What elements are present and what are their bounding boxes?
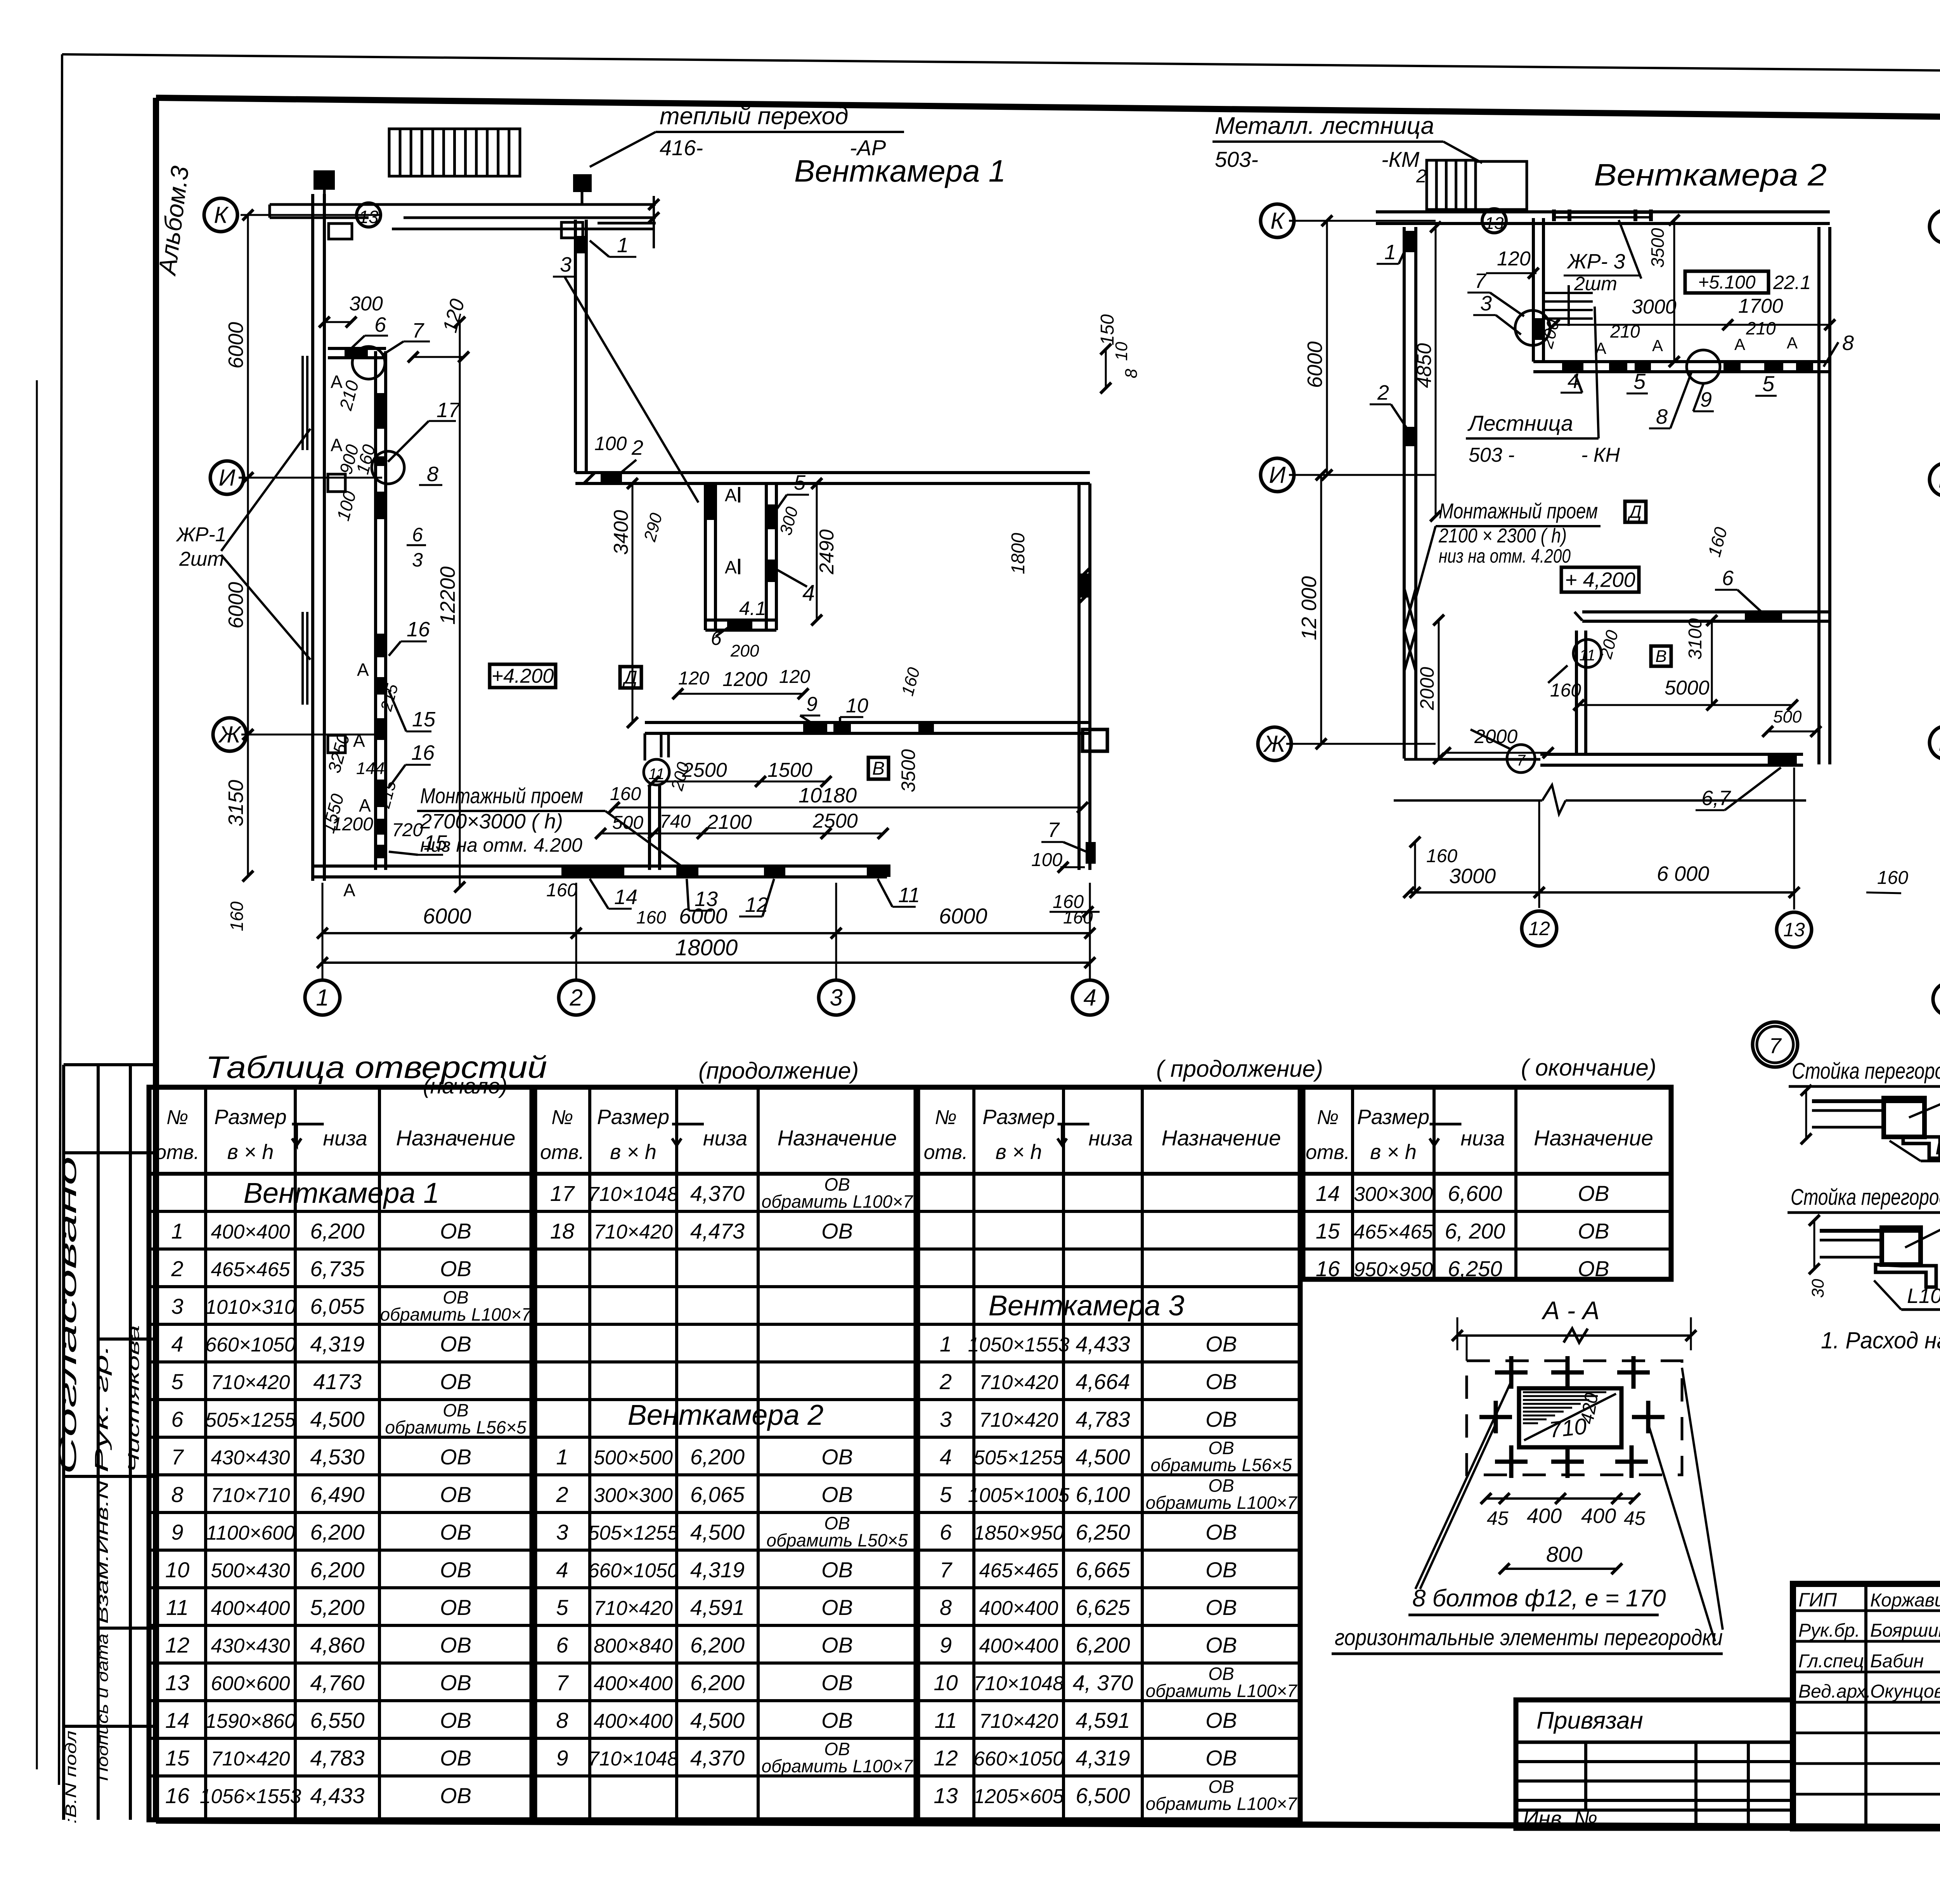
detail A-A dashed rect (1467, 1361, 1682, 1475)
svg-text:4,530: 4,530 (310, 1445, 364, 1469)
svg-text:Монтажный проем: Монтажный проем (1439, 499, 1598, 523)
svg-text:ОВ: ОВ (1206, 1595, 1237, 1620)
svg-text:ОВ: ОВ (440, 1558, 471, 1582)
svg-text:160: 160 (227, 901, 247, 931)
svg-text:4: 4 (940, 1445, 952, 1469)
svg-text:горизонтальные элементы пере: горизонтальные элементы перегородки (1335, 1625, 1723, 1650)
svg-text:ОВ: ОВ (1206, 1369, 1237, 1394)
svg-text:4,783: 4,783 (1076, 1407, 1130, 1431)
svg-text:12: 12 (934, 1746, 958, 1770)
svg-text:13: 13 (934, 1783, 958, 1808)
svg-text:-АР: -АР (850, 135, 886, 160)
plan 1 mid room right wall (765, 483, 768, 630)
svg-text:ОВ: ОВ (440, 1708, 471, 1732)
plan 1 mid room left wall (704, 483, 707, 630)
svg-text:5,200: 5,200 (310, 1595, 364, 1620)
svg-text:6: 6 (1722, 567, 1734, 590)
plan 1 vertical partition lower (648, 786, 651, 870)
svg-text:3150: 3150 (224, 780, 248, 826)
plan 2 axis Zh (1258, 727, 1291, 761)
svg-text:400×400: 400×400 (979, 1597, 1058, 1620)
plan 1 black seg 2 (601, 471, 622, 484)
svg-text:120: 120 (678, 668, 709, 689)
plan 1 room letter V (868, 757, 889, 779)
table 2 grid (535, 1087, 916, 1820)
svg-text:710×420: 710×420 (211, 1748, 290, 1770)
plan 2 circle sec 3 (1515, 310, 1550, 345)
plan 2 circle 11 (1573, 639, 1601, 667)
plan 3 axis A (1933, 982, 1940, 1016)
plan 2 upper room left wall (1532, 218, 1535, 362)
svg-text:2000: 2000 (1416, 667, 1438, 710)
svg-text:ОВ: ОВ (821, 1708, 853, 1732)
svg-text:Венткамера 2: Венткамера 2 (628, 1399, 824, 1431)
svg-text:400: 400 (1581, 1504, 1616, 1528)
svg-text:740: 740 (660, 811, 691, 832)
stamp column verticals (36, 380, 38, 1769)
plan 1 axis circle Zh (213, 718, 246, 751)
plan 2 bottom axis circles (1522, 911, 1557, 946)
svg-text:ОВ: ОВ (1578, 1181, 1609, 1206)
svg-text:6,200: 6,200 (690, 1670, 745, 1695)
svg-text:300×300: 300×300 (1354, 1183, 1433, 1206)
svg-text:6000: 6000 (224, 322, 248, 369)
svg-text:12200: 12200 (436, 567, 459, 625)
svg-text:15: 15 (1316, 1219, 1340, 1243)
svg-text:Венткамера 1: Венткамера 1 (244, 1177, 440, 1209)
svg-text:Назначение: Назначение (396, 1126, 516, 1150)
svg-text:4, 370: 4, 370 (1073, 1670, 1133, 1695)
svg-text:2000: 2000 (1474, 726, 1517, 747)
svg-text:430×430: 430×430 (211, 1635, 290, 1657)
svg-text:Привязан: Привязан (1536, 1707, 1643, 1734)
plan 1 column K2 (573, 174, 592, 192)
svg-text:4,500: 4,500 (310, 1407, 364, 1431)
plan 2 axis I (1261, 458, 1294, 492)
svg-text:4,591: 4,591 (1076, 1708, 1130, 1732)
svg-text:Д: Д (1627, 502, 1642, 522)
svg-text:Венткамера 2: Венткамера 2 (1594, 158, 1827, 192)
plan 1 stair hatch (389, 129, 520, 176)
svg-text:160: 160 (1877, 868, 1908, 888)
svg-text:6,490: 6,490 (310, 1482, 364, 1507)
plan 2 left wall (1403, 227, 1406, 759)
svg-text:+4.200: +4.200 (492, 665, 554, 688)
svg-text:Венткамера 1: Венткамера 1 (794, 154, 1006, 188)
plan 1 dim 3400 (632, 483, 634, 722)
svg-text:(продолжение): (продолжение) (698, 1058, 859, 1084)
plan 1 axis circle 13 (357, 203, 381, 227)
plan 1 section circle 8 (372, 451, 404, 484)
svg-text:4850: 4850 (1413, 343, 1436, 388)
svg-text:6,500: 6,500 (1076, 1783, 1130, 1808)
plan 1 left dims column (247, 215, 249, 478)
svg-text:№: № (935, 1106, 956, 1129)
svg-text:низа: низа (1460, 1127, 1505, 1150)
svg-text:ОВ: ОВ (1206, 1520, 1237, 1544)
svg-text:710×710: 710×710 (211, 1484, 290, 1507)
privyazan block (1516, 1700, 1793, 1828)
svg-text:Стойка перегородки: Стойка перегородки (1791, 1185, 1940, 1210)
svg-text:Лестница: Лестница (1467, 411, 1573, 435)
svg-text:4,500: 4,500 (1076, 1445, 1130, 1469)
svg-text:6: 6 (412, 524, 423, 546)
svg-text:6,200: 6,200 (690, 1633, 745, 1657)
svg-text:416-: 416- (660, 135, 703, 160)
svg-text:Окунцов: Окунцов (1870, 1681, 1940, 1702)
svg-text:Ж: Ж (1263, 731, 1286, 757)
svg-text:710×420: 710×420 (979, 1409, 1058, 1431)
plan 1 axis circle I (210, 461, 244, 494)
plan 1 elevation +4.200 (490, 664, 556, 688)
plan 2 lower room left wall (1575, 631, 1578, 754)
svg-text:4: 4 (1083, 984, 1096, 1010)
svg-text:L50×5: L50×5 (1935, 1136, 1940, 1159)
plan 2 bottom left corner (1404, 758, 1540, 761)
svg-text:ОВ: ОВ (440, 1633, 471, 1657)
svg-text:6000: 6000 (939, 904, 987, 928)
svg-text:9: 9 (806, 693, 818, 716)
svg-text:1205×605: 1205×605 (973, 1785, 1064, 1808)
svg-text:13: 13 (359, 207, 379, 227)
svg-text:18: 18 (550, 1219, 574, 1243)
svg-text:А: А (359, 795, 371, 816)
svg-text:ОВ: ОВ (440, 1369, 471, 1394)
svg-text:13: 13 (1783, 919, 1805, 941)
svg-text:обрамить L100×7: обрамить L100×7 (1146, 1793, 1297, 1814)
svg-text::В.N подл: :В.N подл (62, 1731, 80, 1824)
svg-text:Гл.спец.: Гл.спец. (1798, 1651, 1869, 1672)
svg-text:К: К (1270, 208, 1285, 234)
svg-text:№: № (1317, 1106, 1339, 1129)
plan 2 small stair steps (1545, 292, 1593, 294)
svg-text:3: 3 (940, 1407, 952, 1431)
svg-text:+ 4,200: + 4,200 (1565, 568, 1635, 591)
svg-text:8: 8 (427, 463, 438, 486)
svg-text:Рук. гр.: Рук. гр. (92, 1344, 112, 1473)
svg-text:300×300: 300×300 (594, 1484, 673, 1507)
svg-text:ЖР- 3: ЖР- 3 (1566, 250, 1625, 273)
svg-text:11: 11 (934, 1708, 957, 1732)
plan 1 left wall opening lines (301, 356, 304, 450)
svg-text:6: 6 (940, 1520, 952, 1544)
plan 1 wall pilasters (328, 474, 345, 492)
svg-text:5000: 5000 (1665, 677, 1710, 699)
svg-text:№: № (551, 1106, 573, 1129)
svg-text:ОВ: ОВ (821, 1445, 853, 1469)
svg-text:Коржавина: Коржавина (1870, 1590, 1940, 1611)
svg-text:Назначение: Назначение (1534, 1126, 1653, 1150)
svg-text:1010×310: 1010×310 (205, 1296, 296, 1318)
svg-text:ОВ: ОВ (821, 1558, 853, 1582)
svg-text:710×1048: 710×1048 (588, 1748, 679, 1770)
svg-text:465×465: 465×465 (211, 1258, 291, 1281)
plan 1 inner partition (374, 351, 377, 870)
svg-text:4,473: 4,473 (690, 1219, 745, 1243)
svg-text:3100: 3100 (1685, 618, 1706, 660)
svg-text:ОВ: ОВ (821, 1633, 853, 1657)
svg-text:210: 210 (1610, 321, 1640, 341)
svg-text:А: А (357, 660, 369, 680)
svg-text:3400: 3400 (610, 510, 632, 555)
svg-text:ОВ: ОВ (440, 1445, 471, 1469)
svg-text:2: 2 (556, 1482, 568, 1507)
svg-text:Рук.бр.: Рук.бр. (1798, 1620, 1860, 1641)
svg-text:6: 6 (556, 1633, 568, 1657)
table 3 grid (918, 1087, 1300, 1820)
svg-text:1850×950: 1850×950 (973, 1522, 1064, 1544)
plan 1 section circle 6-7 (352, 346, 385, 379)
svg-text:505×1255: 505×1255 (973, 1447, 1064, 1469)
svg-text:6, 200: 6, 200 (1445, 1219, 1505, 1243)
svg-text:6000: 6000 (679, 904, 727, 928)
svg-text:3: 3 (560, 253, 572, 276)
svg-text:660×1050: 660×1050 (588, 1559, 679, 1582)
svg-text:6,200: 6,200 (1076, 1633, 1130, 1657)
plan 1 right wall (1077, 483, 1081, 870)
plan 1 walkway right part (392, 228, 654, 230)
svg-text:4,591: 4,591 (690, 1595, 745, 1620)
svg-text:К: К (214, 202, 229, 228)
svg-text:Взам.Инв.N: Взам.Инв.N (93, 1480, 111, 1624)
svg-text:710×420: 710×420 (594, 1597, 673, 1620)
plan 1 partition lower (645, 721, 1090, 724)
svg-text:400×400: 400×400 (594, 1672, 673, 1695)
svg-text:ОВ: ОВ (1206, 1407, 1237, 1431)
svg-text:3: 3 (1480, 292, 1492, 315)
plan 3 axis V (1930, 463, 1940, 496)
svg-text:1100×600: 1100×600 (206, 1522, 295, 1544)
svg-text:13: 13 (165, 1670, 189, 1695)
svg-text:4,433: 4,433 (1076, 1332, 1130, 1356)
svg-text:7: 7 (940, 1558, 953, 1582)
svg-text:4,319: 4,319 (1076, 1746, 1130, 1770)
svg-text:6,250: 6,250 (1076, 1520, 1130, 1544)
svg-text:( окончание): ( окончание) (1521, 1055, 1656, 1081)
plan 3 axis G (1930, 210, 1940, 243)
plan 2 stair (1427, 160, 1476, 210)
svg-text:720: 720 (392, 820, 423, 840)
svg-text:отв.: отв. (1306, 1141, 1350, 1164)
plan 2 room letter V (1651, 646, 1671, 666)
title block outer (1793, 1584, 1940, 1828)
svg-text:6: 6 (374, 313, 386, 336)
svg-text:3000: 3000 (1632, 296, 1677, 318)
plan 2 upper room blacks (1532, 318, 1545, 340)
svg-text:710×1048: 710×1048 (588, 1183, 679, 1206)
svg-text:15: 15 (165, 1746, 190, 1770)
svg-text:А: А (353, 731, 365, 751)
svg-text:4,500: 4,500 (690, 1708, 745, 1732)
svg-text:1500: 1500 (767, 759, 812, 781)
svg-text:2: 2 (939, 1369, 952, 1394)
plan 2 dims 2000 (1438, 620, 1440, 759)
svg-text:ОВ: ОВ (1206, 1708, 1237, 1732)
svg-text:9: 9 (171, 1520, 183, 1544)
svg-text:400: 400 (1527, 1504, 1562, 1528)
svg-text:4,860: 4,860 (310, 1633, 364, 1657)
plan 1 bottom room dims (654, 781, 826, 783)
svg-text:Венткамера 3: Венткамера 3 (989, 1289, 1185, 1322)
svg-text:710×1048: 710×1048 (973, 1672, 1064, 1695)
svg-text:660×1050: 660×1050 (205, 1334, 296, 1356)
svg-text:ОВ: ОВ (821, 1219, 853, 1243)
svg-text:Размер: Размер (1357, 1105, 1429, 1129)
svg-text:обрамить L50×5: обрамить L50×5 (766, 1530, 908, 1550)
svg-text:30: 30 (1808, 1279, 1827, 1298)
svg-text:Назначение: Назначение (778, 1126, 897, 1150)
svg-text:160: 160 (610, 784, 641, 804)
svg-text:600×600: 600×600 (211, 1672, 290, 1695)
svg-text:6,7: 6,7 (1701, 787, 1731, 810)
svg-text:7: 7 (171, 1445, 184, 1469)
plan 2 break line (1394, 799, 1542, 802)
svg-text:ОВ: ОВ (440, 1256, 471, 1281)
svg-text:6,200: 6,200 (310, 1219, 364, 1243)
svg-text:5: 5 (171, 1369, 184, 1394)
svg-text:500: 500 (1773, 707, 1802, 726)
svg-text:А: А (1652, 336, 1663, 355)
svg-text:ОВ: ОВ (821, 1670, 853, 1695)
svg-text:6,550: 6,550 (310, 1708, 364, 1732)
svg-text:обрамить L100×7: обрамить L100×7 (762, 1756, 913, 1776)
svg-text:обрамить L100×7: обрамить L100×7 (1146, 1492, 1297, 1512)
svg-text:4,370: 4,370 (690, 1746, 745, 1770)
svg-text:2: 2 (1377, 381, 1389, 404)
svg-text:L100×7: L100×7 (1907, 1284, 1940, 1308)
svg-text:6,065: 6,065 (690, 1482, 745, 1507)
plan 1 room letter D (620, 667, 641, 688)
svg-text:160: 160 (1426, 846, 1457, 866)
svg-text:в × h: в × h (227, 1140, 274, 1164)
plan 1 bottom wall blacks (561, 865, 624, 877)
plan 1 circle 11 (644, 759, 669, 785)
svg-text:120: 120 (779, 667, 810, 687)
detail A-A opening rect (1519, 1388, 1621, 1447)
svg-text:800: 800 (1546, 1542, 1582, 1566)
svg-text:160: 160 (546, 880, 577, 901)
svg-text:ОВ: ОВ (1206, 1746, 1237, 1770)
svg-text:15: 15 (412, 708, 436, 731)
plan 2 top wall opening ZhR3 (1554, 211, 1651, 214)
detail A-A bottom dim 1 (1486, 1497, 1635, 1500)
svg-text:4,319: 4,319 (310, 1332, 364, 1356)
svg-text:16: 16 (411, 741, 435, 764)
table 1 grid (149, 1087, 532, 1820)
plan 1 column K1 (314, 170, 335, 190)
svg-text:Согласовано: Согласовано (54, 1156, 81, 1474)
svg-text:в × h: в × h (610, 1140, 656, 1164)
plan 2 left wall cross (1404, 588, 1416, 631)
plan 2 top wall (1376, 210, 1830, 213)
svg-text:5: 5 (1762, 371, 1775, 396)
plan 1 column jog left (329, 223, 352, 239)
svg-text:2100 × 2300 ( h): 2100 × 2300 ( h) (1438, 525, 1567, 547)
svg-text:А: А (343, 880, 355, 900)
svg-text:400×400: 400×400 (979, 1635, 1058, 1657)
plan 1 mid room blacks (704, 484, 715, 520)
svg-text:10: 10 (165, 1558, 189, 1582)
svg-text:1. Расход на обрамление отв: 1. Расход на обрамление отверстий L50×5-… (1821, 1327, 1940, 1353)
plan 1 big room top wall (575, 471, 1090, 474)
svg-text:710×420: 710×420 (979, 1710, 1058, 1732)
svg-text:710×420: 710×420 (979, 1371, 1058, 1394)
plan 2 landing (1476, 161, 1527, 210)
svg-text:17: 17 (550, 1181, 575, 1206)
plan 1 partition blacks 9 10 (803, 721, 827, 733)
detail A-A top dim (1457, 1334, 1691, 1337)
svg-text:5: 5 (1633, 369, 1646, 393)
svg-text:10180: 10180 (799, 784, 857, 807)
svg-text:503 -: 503 - (1469, 444, 1515, 466)
svg-text:6,665: 6,665 (1076, 1558, 1130, 1582)
svg-text:ОВ: ОВ (440, 1783, 471, 1808)
plan 2 axis K (1261, 204, 1294, 237)
plan 1 dims 120 1200 120 (678, 693, 803, 695)
plan 2 axis circle 13 top (1482, 209, 1506, 233)
svg-text:2: 2 (1416, 166, 1427, 187)
plan 1 column jog right (561, 222, 583, 238)
svg-text:3500: 3500 (1647, 228, 1668, 268)
svg-text:Б: Б (1938, 729, 1940, 755)
svg-text:7: 7 (1517, 752, 1526, 769)
svg-text:ОВ: ОВ (440, 1670, 471, 1695)
plan 2 left wall blacks (1403, 231, 1417, 252)
svg-text:обрамить L100×7: обрамить L100×7 (1146, 1681, 1297, 1701)
svg-text:отв.: отв. (155, 1141, 199, 1164)
svg-text:500×430: 500×430 (211, 1559, 290, 1582)
svg-text:45: 45 (1487, 1507, 1509, 1529)
svg-text:160: 160 (1550, 680, 1581, 701)
svg-text:6 000: 6 000 (1657, 862, 1709, 885)
svg-text:4,760: 4,760 (310, 1670, 364, 1695)
svg-text:12: 12 (165, 1633, 189, 1657)
svg-text:120: 120 (1497, 248, 1531, 270)
detail A-A leaders (1415, 1381, 1511, 1589)
svg-text:ОВ: ОВ (821, 1482, 853, 1507)
table 4 grid (1303, 1087, 1671, 1279)
plan 2 room letter D (1625, 501, 1646, 522)
svg-text:Чистякова: Чистякова (125, 1325, 142, 1473)
svg-text:И: И (219, 464, 236, 490)
svg-text:710×420: 710×420 (594, 1221, 673, 1243)
detail A-A hatch (1523, 1391, 1606, 1393)
plan 2 upper room wall (1533, 360, 1830, 363)
svg-text:2шт: 2шт (179, 548, 224, 570)
svg-text:№: № (166, 1106, 188, 1129)
svg-text:400×400: 400×400 (211, 1597, 290, 1620)
svg-text:800×840: 800×840 (594, 1635, 673, 1657)
svg-text:ОВ: ОВ (1578, 1256, 1609, 1281)
svg-text:Стойка перегородки: Стойка перегородки (1792, 1059, 1940, 1084)
plan 2 lower room top wall (1582, 610, 1830, 613)
svg-text:А: А (1787, 334, 1798, 352)
svg-text:2490: 2490 (816, 529, 838, 575)
svg-text:7: 7 (1048, 818, 1060, 842)
svg-text:11: 11 (1579, 647, 1595, 664)
svg-text:950×950: 950×950 (1354, 1258, 1433, 1281)
detail A-A bolts crosses (1495, 1370, 1528, 1375)
svg-text:ОВ: ОВ (1578, 1219, 1609, 1243)
svg-text:400×400: 400×400 (211, 1221, 290, 1243)
svg-text:Бабин: Бабин (1870, 1651, 1924, 1672)
plan 1 dim 12200 (459, 322, 461, 887)
svg-text:7: 7 (556, 1670, 569, 1695)
svg-text:-КМ: -КМ (1381, 147, 1420, 172)
svg-text:обрамить L100×7: обрамить L100×7 (762, 1191, 913, 1211)
svg-text:500: 500 (612, 813, 643, 833)
svg-text:505×1255: 505×1255 (205, 1409, 296, 1431)
